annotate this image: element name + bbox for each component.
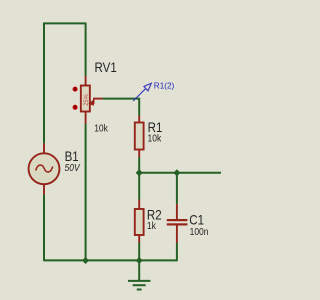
- wire wiper horizontal to R1 branch: [103, 98, 140, 100]
- wire B1 bottom vertical to bottom rail: [43, 194, 45, 260]
- ground symbol: [128, 260, 150, 289]
- sine source B1: [29, 153, 60, 184]
- svg-text:100n: 100n: [190, 226, 209, 237]
- wire R2 top red lead: [138, 200, 140, 210]
- wire B1 bottom red lead: [43, 184, 45, 194]
- wire R2 bottom vertical to bottom rail: [138, 243, 140, 261]
- wire R1 top red lead: [138, 116, 140, 124]
- svg-text:1k: 1k: [147, 220, 156, 231]
- wire R2 top vertical: [138, 173, 140, 200]
- wire RV1 bottom red lead: [85, 112, 87, 124]
- wire RV1 wiper red lead: [93, 98, 103, 100]
- junction C1/mid rail: [173, 169, 180, 176]
- wire R1 branch vertical: [138, 98, 140, 116]
- wire RV1 bottom vertical to bottom rail: [85, 124, 87, 261]
- wire C1 bottom vertical to bottom rail: [176, 243, 178, 260]
- junction R1/R2/mid rail: [136, 169, 143, 176]
- wire RV1 top red lead: [85, 76, 87, 86]
- resistor R2 body: [135, 209, 144, 235]
- wire top horizontal rail: [43, 22, 86, 24]
- svg-text:10k: 10k: [148, 133, 162, 144]
- RV1 wiper arrow: [89, 99, 94, 106]
- wire R1 bottom red lead: [138, 150, 140, 158]
- wire RV1 top vertical: [85, 23, 87, 77]
- wire left vertical to B1: [43, 23, 45, 144]
- wire C1 top vertical: [176, 173, 178, 204]
- RV1 adjust button up: [73, 87, 78, 92]
- wire R2 bottom red lead: [138, 235, 140, 243]
- junction RV1/bottom rail: [82, 257, 89, 264]
- junction R2/ground/bottom rail: [136, 257, 143, 264]
- wire C1 bottom red lead: [176, 226, 178, 244]
- wire R1 bottom vertical to mid rail: [138, 157, 140, 173]
- RV1 adjust button down: [73, 105, 78, 110]
- capacitor C1 plates: [167, 219, 188, 226]
- svg-text:50V: 50V: [65, 162, 81, 173]
- wire bottom horizontal rail: [43, 259, 178, 261]
- svg-text:RV1: RV1: [95, 60, 117, 75]
- resistor R1 body: [135, 123, 144, 150]
- potentiometer RV1 body: [81, 86, 90, 112]
- svg-text:10k: 10k: [94, 123, 108, 134]
- voltage probe R1(2): [133, 83, 151, 101]
- wire B1 top red lead: [43, 143, 45, 153]
- svg-text:R1(2): R1(2): [154, 81, 175, 90]
- wire mid horizontal rail: [139, 172, 221, 174]
- wire C1 top red lead: [176, 204, 178, 219]
